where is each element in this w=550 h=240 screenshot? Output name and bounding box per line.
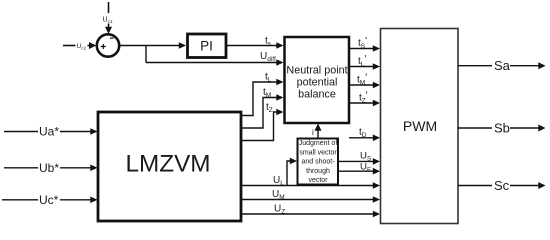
svg-text:potential: potential [297, 77, 338, 89]
svg-text:Uc2: Uc2 [77, 43, 87, 50]
wire t_S' NPB to PWM [349, 36, 380, 52]
wire t_Z' NPB to PWM [349, 91, 380, 107]
wire summer to PI [120, 42, 187, 49]
svg-text:i: i [312, 128, 314, 137]
wire U_Z from LMZVM to PWM [241, 204, 380, 218]
block LMZVM [98, 112, 241, 221]
wire Sc output [458, 178, 546, 193]
svg-text:Sc: Sc [494, 178, 510, 193]
block NPB neutral point potential balance [285, 37, 350, 123]
wire U_M from LMZVM to PWM [241, 189, 380, 203]
wire Uc* input [2, 193, 98, 207]
svg-text:through: through [306, 168, 330, 175]
wire Ua* input [4, 125, 98, 139]
svg-text:and shoot-: and shoot- [301, 159, 335, 166]
svg-text:PI: PI [200, 39, 213, 54]
svg-text:tZ: tZ [266, 102, 273, 114]
wire t_M' NPB to PWM [349, 73, 380, 89]
svg-text:UM: UM [272, 189, 285, 201]
wire U_S judgment to PWM [337, 151, 380, 165]
wire t_L' NPB to PWM [349, 54, 380, 70]
svg-text:ts: ts [265, 36, 272, 48]
svg-text:UL: UL [273, 175, 284, 187]
svg-text:Ub*: Ub* [39, 161, 59, 175]
wire Uc2 input [63, 42, 96, 50]
wire t_M from LMZVM to NPB [242, 87, 284, 128]
svg-text:Sa: Sa [494, 58, 511, 73]
wire Sb output [458, 120, 546, 135]
svg-text:Udiff: Udiff [260, 51, 276, 63]
wire U_F judgment to PWM [337, 161, 380, 174]
svg-text:Ua*: Ua* [39, 125, 59, 139]
wire PI out t_s to NPB [227, 36, 284, 49]
wire branch U_L up to judgment block [287, 158, 297, 186]
wire Ub* input [4, 161, 98, 175]
svg-text:vector: vector [308, 177, 328, 184]
wire Uc1 into summer [105, 24, 112, 35]
wire Sa output [458, 58, 546, 73]
wire U_L from LMZVM to PWM [241, 175, 380, 189]
block judgment of small vector and shoot-through vector [298, 139, 339, 185]
wire top stub [108, 2, 110, 13]
block PI [188, 34, 227, 58]
wire i from judgment to NPB [312, 124, 322, 139]
svg-text:tM: tM [263, 87, 271, 99]
svg-text:tL: tL [265, 72, 272, 84]
block PWM [381, 29, 459, 224]
wire t_D to PWM [349, 127, 380, 141]
svg-text:balance: balance [298, 89, 336, 101]
svg-text:LMZVM: LMZVM [125, 151, 210, 178]
svg-text:Neutral point: Neutral point [286, 65, 347, 77]
svg-text:UZ: UZ [274, 204, 285, 216]
svg-text:tD: tD [359, 127, 367, 139]
svg-text:UF: UF [360, 161, 371, 173]
svg-text:PWM: PWM [403, 118, 437, 134]
summing junction [97, 34, 119, 56]
wire branch down for Udiff [145, 46, 147, 63]
svg-text:Sb: Sb [494, 120, 510, 135]
wire t_Z from LMZVM to NPB [242, 102, 284, 141]
wire Udiff to NPB [146, 51, 284, 66]
svg-text:Uc*: Uc* [39, 193, 59, 207]
wire t_L from LMZVM to NPB [242, 72, 284, 116]
svg-text:Judgment of: Judgment of [299, 140, 338, 147]
svg-text:small vector: small vector [299, 149, 337, 156]
